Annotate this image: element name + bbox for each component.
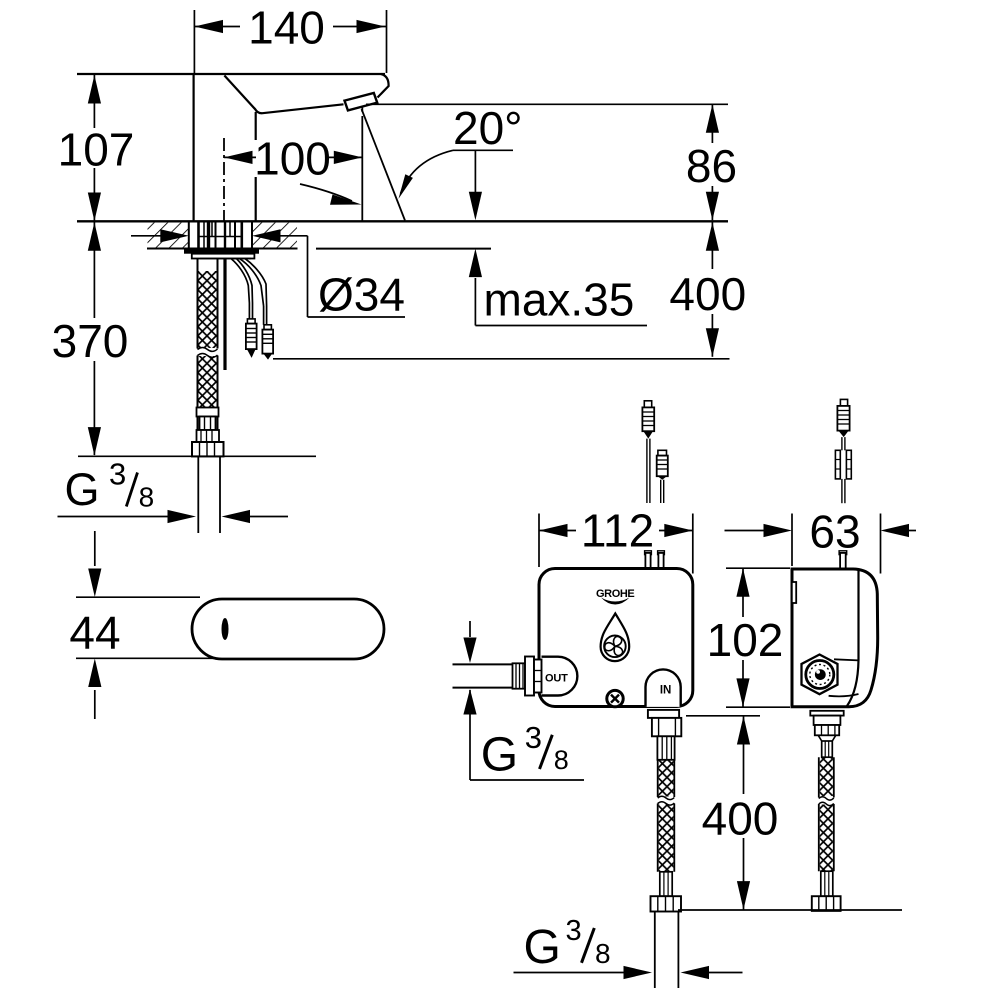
svg-text:107: 107 [58, 124, 135, 176]
svg-text:8: 8 [554, 745, 569, 775]
svg-text:G: G [524, 921, 561, 974]
svg-text:112: 112 [581, 505, 654, 557]
svg-text:IN: IN [660, 685, 672, 697]
svg-text:3: 3 [525, 720, 542, 755]
svg-text:140: 140 [248, 2, 325, 54]
svg-text:102: 102 [707, 614, 784, 666]
svg-text:3: 3 [566, 915, 582, 947]
svg-text:370: 370 [52, 315, 129, 367]
svg-text:8: 8 [595, 938, 611, 969]
svg-text:max.35: max.35 [484, 273, 635, 325]
svg-text:3: 3 [109, 457, 126, 492]
svg-text:400: 400 [669, 268, 746, 320]
svg-text:20°: 20° [453, 102, 523, 154]
svg-text:100: 100 [254, 133, 331, 185]
svg-text:86: 86 [686, 140, 737, 192]
svg-text:400: 400 [702, 792, 779, 844]
svg-text:G: G [65, 464, 100, 515]
svg-text:8: 8 [139, 482, 155, 513]
svg-text:63: 63 [809, 506, 860, 558]
svg-text:G: G [481, 728, 518, 781]
svg-text:44: 44 [69, 606, 120, 658]
svg-text:Ø34: Ø34 [318, 268, 405, 320]
svg-text:OUT: OUT [545, 673, 568, 685]
